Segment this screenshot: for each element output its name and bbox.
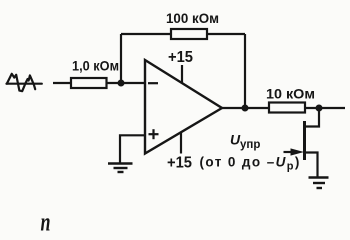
transistor Q1 channel bar [303, 121, 306, 160]
wire source [306, 153, 318, 178]
wire R1 to op-amp inverting input [107, 82, 146, 84]
svg-text:+15: +15 [167, 155, 192, 172]
wire feedback left vertical [120, 34, 122, 83]
ground left [108, 164, 133, 173]
supply pin +15 top [181, 65, 183, 83]
resistor R1 1,0 kOhm [71, 78, 107, 88]
svg-text:100 кОм: 100 кОм [166, 10, 219, 26]
wire feedback right vertical [244, 34, 246, 108]
resistor R3 10 kOhm [269, 103, 305, 113]
transistor Q1 gate wire with arrow [284, 151, 295, 153]
wire R3 to output terminal [305, 107, 345, 109]
node output junction dot [242, 105, 249, 112]
wire feedback top horizontal [121, 33, 245, 35]
op-amp U1 triangle [145, 60, 222, 154]
svg-text:10 кОм: 10 кОм [266, 86, 315, 102]
wire non-inverting input to ground [120, 135, 145, 163]
node drain junction dot [316, 105, 323, 112]
resistor R2 100 kOhm [171, 29, 207, 39]
svg-text:1,0 кОм: 1,0 кОм [72, 58, 119, 74]
svg-text:п: п [41, 208, 51, 237]
supply pin +15 bottom [180, 133, 182, 154]
ground right [309, 178, 329, 189]
op-amp plus sign [149, 129, 159, 139]
wire input to R1 [53, 82, 71, 84]
svg-text:+15: +15 [168, 49, 193, 66]
svg-text:упр: упр [240, 139, 260, 151]
wire drain [306, 108, 319, 127]
node A junction dot [118, 80, 125, 87]
wire op-amp output [222, 107, 269, 109]
input generator waveform symbol [7, 74, 42, 91]
op-amp minus sign [148, 82, 158, 84]
